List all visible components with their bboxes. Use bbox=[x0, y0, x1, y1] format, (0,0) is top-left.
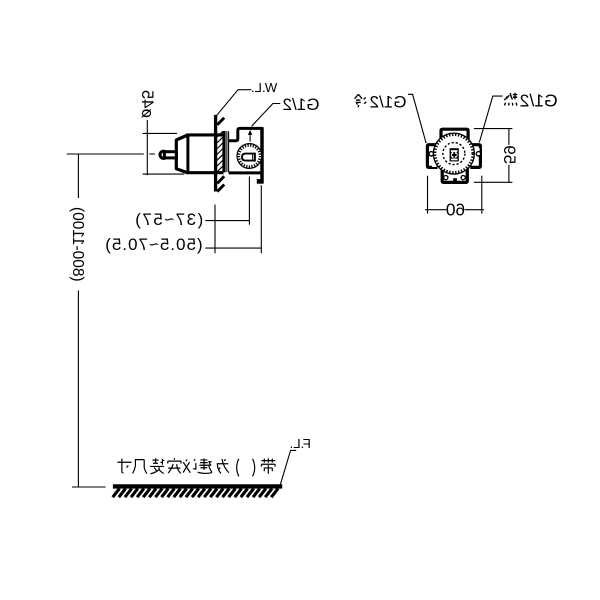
handle trapezoid cap bbox=[176, 135, 188, 173]
wall hatches below bbox=[217, 176, 224, 191]
bottom tab bbox=[442, 166, 467, 182]
leader G1/2 hot bbox=[479, 96, 502, 142]
wall hatch above bbox=[217, 118, 224, 125]
svg-text:G1/2: G1/2 bbox=[283, 95, 320, 114]
right tab notch bbox=[475, 148, 479, 152]
label G1/2 hot: latin part mirrored bbox=[520, 90, 558, 110]
lever pill divider bbox=[252, 154, 254, 161]
wall line bbox=[214, 115, 217, 192]
dimension text 59 rotated+mirrored bbox=[500, 145, 519, 164]
dimension 60 bbox=[425, 176, 484, 214]
floor line bbox=[113, 484, 282, 488]
handle joint line bbox=[186, 134, 189, 174]
label G1/2 mirrored bbox=[283, 95, 320, 114]
svg-text:(37~57): (37~57) bbox=[134, 210, 204, 229]
note text: zhuang glyph bbox=[150, 458, 164, 473]
dimension 59 bbox=[474, 129, 513, 183]
note text: wei glyph bbox=[217, 459, 229, 473]
note text: close paren mirrored bbox=[237, 459, 239, 477]
svg-text:60: 60 bbox=[446, 200, 465, 220]
bottom tab screw holes bbox=[444, 176, 448, 180]
floor hatching bbox=[113, 489, 278, 498]
note text: open paren mirrored bbox=[253, 459, 255, 477]
svg-text:F.L.: F.L. bbox=[290, 436, 311, 451]
flange plate behind wall bbox=[222, 131, 225, 172]
handle stem cap bbox=[160, 151, 167, 158]
dimension phi45 bbox=[143, 120, 185, 175]
leader F.L. bbox=[280, 450, 296, 484]
cartridge screw circle bbox=[451, 152, 458, 159]
leader W.L. bbox=[216, 90, 251, 117]
mounting plate line bbox=[260, 127, 264, 183]
side knurl ring bbox=[239, 145, 260, 166]
front outer circle bbox=[433, 133, 474, 174]
dimension text (37~57) mirrored bbox=[134, 210, 204, 229]
phillips cross bbox=[452, 154, 457, 156]
wall section hatching bbox=[217, 132, 223, 172]
label G1/2 cold: leng glyph bbox=[355, 94, 367, 107]
svg-text:W.L.: W.L. bbox=[251, 80, 277, 95]
svg-text:(800-1100): (800-1100) bbox=[69, 207, 86, 282]
note text: an glyph bbox=[168, 458, 181, 473]
cartridge white slots bbox=[451, 150, 458, 152]
dimension text 60 mirrored bbox=[446, 200, 465, 220]
dimension text phi45 rotated+mirrored bbox=[138, 90, 156, 118]
dimension text (50.5~70.5) mirrored bbox=[104, 235, 202, 254]
dimension (800-1100) vertical line bbox=[72, 154, 106, 487]
left tab notch bbox=[432, 164, 437, 167]
cartridge block bbox=[450, 148, 459, 161]
centerline of valve (chain line) bbox=[67, 153, 155, 155]
svg-text:ø45: ø45 bbox=[138, 90, 156, 118]
side lever pill bbox=[242, 154, 255, 161]
top tab bbox=[441, 129, 468, 142]
leader G1/2 (side view top port) bbox=[252, 104, 281, 127]
handle top edge bbox=[187, 133, 224, 136]
left tab bbox=[427, 145, 437, 168]
dimension (50.5~70.5) bbox=[205, 185, 261, 253]
left tab hook bbox=[429, 152, 433, 156]
bottom tab notch bbox=[453, 178, 457, 182]
note text: chi glyph bbox=[133, 460, 147, 474]
right tab bbox=[470, 145, 480, 168]
flange front face double line bbox=[227, 131, 229, 172]
svg-text:(50.5~70.5): (50.5~70.5) bbox=[104, 235, 202, 254]
svg-text:59: 59 bbox=[500, 145, 519, 164]
front knurl ring bbox=[435, 135, 473, 173]
side cartridge circle bbox=[237, 144, 262, 169]
handle stem bbox=[164, 152, 176, 158]
leader G1/2 cold bbox=[408, 94, 426, 143]
note text: yi glyph bbox=[183, 459, 196, 472]
label F.L. mirrored bbox=[290, 436, 311, 451]
label G1/2 hot: re glyph bbox=[504, 93, 517, 106]
valve body stepped outline bbox=[229, 128, 262, 140]
label W.L. mirrored bbox=[251, 80, 277, 95]
svg-text:G1/2: G1/2 bbox=[520, 90, 558, 110]
dimension (37~57) bbox=[205, 177, 249, 254]
note text: cun glyph bbox=[117, 459, 131, 473]
note text: jian glyph bbox=[198, 458, 212, 473]
front inner circle (dashed) bbox=[443, 143, 465, 165]
handle bottom edge bbox=[187, 171, 224, 174]
note text: dai glyph bbox=[261, 458, 275, 473]
mounting plate foot bbox=[257, 179, 264, 184]
valve body bottom line bbox=[229, 171, 262, 174]
right tab hook bbox=[476, 152, 480, 156]
dimension text (800-1100) rotated+mirrored bbox=[69, 207, 86, 282]
label G1/2 cold: latin part mirrored bbox=[370, 93, 407, 112]
flow arrow bbox=[249, 134, 251, 142]
svg-text:G1/2: G1/2 bbox=[370, 93, 407, 112]
